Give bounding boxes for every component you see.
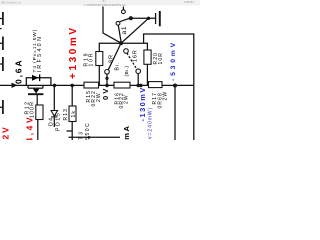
capacitor plate (edge, top) [0, 12, 3, 25]
wire D4 top lead [53, 85, 55, 110]
switch a1 blade [120, 19, 129, 22]
svg-text:(Pv=240mW): (Pv=240mW) [147, 107, 153, 140]
wire R20 bottom lead [146, 64, 148, 85]
mosfet T4 source lead [36, 94, 38, 105]
junction dot gate node [70, 84, 74, 88]
switch a1 pole dot [129, 16, 133, 20]
capacitor plate (edge, fourth) [0, 100, 3, 114]
browser top bar [0, 0, 200, 6]
svg-text:Bı.: Bı. [115, 62, 121, 71]
svg-text:550C: 550C [85, 122, 91, 140]
switch a1 upper contact stub [122, 7, 124, 10]
resistor R17 [149, 82, 163, 88]
wire node J to switch contact [118, 25, 121, 41]
resistor R15 [84, 82, 99, 88]
junction node J [119, 41, 123, 45]
junction dot emitter rail [88, 136, 91, 139]
capacitor C top-right plate 1 [155, 13, 157, 24]
junction dot 8R node [105, 84, 109, 88]
capacitor plate (edge, second) [0, 37, 3, 51]
svg-text:2W: 2W [124, 94, 130, 104]
junction dot on top rail [147, 17, 150, 20]
wire right return loop [144, 34, 194, 140]
wire emitter bottom rail [69, 136, 121, 138]
svg-text:a1: a1 [121, 26, 128, 35]
svg-text:0,6A: 0,6A [14, 59, 24, 84]
svg-text:2V: 2V [1, 125, 11, 139]
wire ammeter branch vertical [174, 86, 176, 141]
resistor R19 [96, 52, 103, 66]
capacitor C top-right plate 2 [159, 11, 161, 26]
svg-text:T3: T3 [79, 130, 85, 140]
diode D4 [51, 111, 57, 117]
switch a1 lower contact [116, 21, 120, 25]
wire R13 bottom lead to T3 [71, 122, 73, 141]
mosfet T4 arrow [33, 89, 40, 94]
resistor R12 [36, 105, 43, 120]
svg-text:1 SPSfSUSPPVSBUSU2SRTS.GA: 1 SPSfSUSPPVSBUSU2SRTS.GA [84, 3, 126, 7]
wire R12 bottom lead [37, 120, 39, 141]
svg-text:10R: 10R [158, 52, 164, 64]
wire stub at edge [0, 28, 2, 30]
resistor R13 [69, 106, 76, 122]
wire node J to R19 [99, 43, 121, 51]
svg-text:1k: 1k [71, 110, 77, 117]
jack terminal 8R [105, 70, 110, 75]
jack terminal 16R [136, 69, 141, 74]
svg-text:mA: mA [122, 125, 131, 140]
wire switch output top rail [132, 17, 155, 19]
wire T3 collector stub [67, 130, 73, 132]
dashed wire to 16R jack [127, 53, 137, 69]
svg-text:D4: D4 [48, 117, 54, 126]
junction dot 16R node [136, 84, 140, 88]
mosfet T4 body diode [32, 74, 40, 81]
svg-text:R13: R13 [63, 108, 69, 120]
resistor R16 [114, 82, 130, 88]
junction dot sense node [173, 84, 177, 88]
svg-text:10R: 10R [89, 52, 95, 67]
svg-text:2W: 2W [163, 91, 169, 101]
svg-text:4.95 B n: 4.95 B n [184, 0, 195, 4]
mosfet T4 body diode loop [26, 78, 51, 86]
wire node J diagonal to top rail [122, 18, 148, 42]
junction dot drain node [53, 84, 57, 88]
jack terminal 16R upper [124, 49, 129, 54]
mosfet T4 gate ticks [28, 85, 43, 88]
svg-text:-530mV: -530mV [170, 40, 177, 81]
svg-text:4,4V: 4,4V [24, 115, 34, 140]
svg-text:8R: 8R [108, 54, 114, 63]
wire main supply rail [0, 84, 194, 86]
svg-text:+130mV: +130mV [68, 25, 79, 79]
resistor R20 [144, 50, 151, 64]
switch a1 upper contact [122, 10, 126, 14]
svg-text:16R: 16R [133, 50, 139, 63]
svg-text:(Bı.): (Bı.) [124, 65, 130, 76]
wire R13 top lead [71, 85, 73, 106]
svg-text:... (1): ... (1) [99, 0, 106, 3]
diagonal wire to 8R jack [108, 45, 120, 70]
wire switch feed vertical [103, 7, 120, 43]
jack 8R plug dot [105, 77, 108, 80]
wire 8R jack vertical [106, 74, 108, 85]
wire D4 bottom lead [53, 117, 55, 127]
svg-text:0V: 0V [101, 86, 110, 100]
wire R19 bottom lead [98, 66, 100, 86]
svg-text:999 Sorted It on: 999 Sorted It on [1, 0, 21, 4]
wire node J to R20 [121, 43, 147, 50]
capacitor plate (edge, third) [0, 57, 3, 71]
wire 16R jack vertical [137, 74, 139, 86]
current arrow 0,6A [12, 83, 18, 88]
svg-text:-130mV: -130mV [138, 86, 147, 121]
mosfet T4 channel bar [28, 93, 43, 95]
svg-text:IRF540N: IRF540N [37, 35, 43, 73]
junction dot 16R right [139, 84, 143, 88]
svg-text:PD15: PD15 [55, 112, 61, 131]
